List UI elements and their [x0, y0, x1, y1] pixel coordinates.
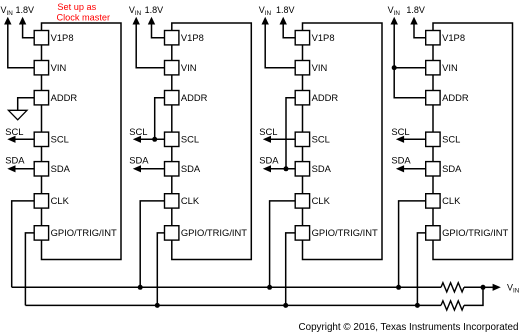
IC U1 body [42, 23, 122, 260]
power arrow 1.8V (U4) [410, 17, 417, 25]
pin U2 ADDR [165, 91, 179, 105]
wire INT bus [25, 304, 441, 306]
svg-text:1.8V: 1.8V [276, 5, 295, 15]
wire VIN supply to pin VIN (U2) [136, 24, 164, 68]
wire R1 to VIN node [464, 286, 483, 288]
svg-text:GPIO/TRIG/INT: GPIO/TRIG/INT [181, 227, 247, 238]
svg-text:VIN: VIN [129, 5, 142, 17]
svg-text:VIN: VIN [51, 62, 67, 73]
wire 1.8V supply to pin V1P8 (U3) [283, 24, 295, 38]
pin U1 V1P8 [34, 31, 48, 45]
power arrow VIN (U1) [4, 17, 11, 25]
power arrow 1.8V (U1) [19, 17, 26, 25]
svg-text:ADDR: ADDR [181, 92, 208, 103]
svg-text:VIN: VIN [507, 283, 519, 295]
svg-text:SCL: SCL [5, 126, 23, 137]
svg-text:SDA: SDA [51, 163, 71, 174]
pin U3 GPIO/TRIG/INT [295, 226, 309, 240]
pin U2 CLK [165, 194, 179, 208]
resistor R1 (CLK bus pull-up) [441, 283, 464, 292]
wire SDA stub (U3) [267, 168, 295, 170]
junction ADDR/VIN (U4) [392, 65, 397, 70]
pin U3 CLK [295, 194, 309, 208]
svg-text:CLK: CLK [51, 195, 70, 206]
wire 1.8V supply to pin V1P8 (U4) [414, 24, 426, 38]
svg-text:SDA: SDA [129, 155, 149, 166]
wire SCL stub (U4) [400, 138, 426, 140]
svg-text:V1P8: V1P8 [312, 32, 335, 43]
pin U3 V1P8 [295, 31, 309, 45]
svg-text:1.8V: 1.8V [16, 5, 35, 15]
pin U4 CLK [426, 194, 440, 208]
pin U2 V1P8 [165, 31, 179, 45]
pin U2 GPIO/TRIG/INT [165, 226, 179, 240]
IC U3 body [303, 23, 383, 260]
pin U3 VIN [295, 61, 309, 75]
wire ADDR to SDA net (U3) [286, 98, 295, 169]
pin U3 ADDR [295, 91, 309, 105]
arrowhead SCL (U4) [396, 136, 404, 143]
resistor R2 (INT bus pull-up) [441, 301, 464, 310]
wire CLK to CLK bus (U3) [270, 201, 296, 287]
svg-text:GPIO/TRIG/INT: GPIO/TRIG/INT [51, 227, 117, 238]
arrowhead SDA (U3) [263, 165, 271, 172]
svg-text:V1P8: V1P8 [51, 32, 74, 43]
junction CLK bus / U3 [267, 285, 272, 290]
pin U1 ADDR [34, 91, 48, 105]
junction INT bus / U2 [155, 303, 160, 308]
svg-text:SDA: SDA [181, 163, 201, 174]
wire VIN supply to pin VIN (U1) [8, 24, 34, 68]
svg-text:SCL: SCL [391, 126, 409, 137]
svg-text:ADDR: ADDR [442, 92, 469, 103]
pin U1 GPIO/TRIG/INT [34, 226, 48, 240]
junction VIN node [481, 285, 486, 290]
svg-text:ADDR: ADDR [51, 92, 78, 103]
pin U2 SDA [165, 162, 179, 176]
pin U4 ADDR [426, 91, 440, 105]
junction INT bus / U3 [283, 303, 288, 308]
svg-text:SDA: SDA [442, 163, 462, 174]
power arrow VIN (U3) [262, 17, 269, 25]
svg-text:CLK: CLK [312, 195, 331, 206]
pin U1 CLK [34, 194, 48, 208]
wire SDA stub (U1) [11, 168, 34, 170]
wire VIN supply to pin VIN (U4) [394, 24, 426, 68]
pin U4 GPIO/TRIG/INT [426, 226, 440, 240]
wire VIN node to arrow [483, 286, 493, 288]
pin U4 V1P8 [426, 31, 440, 45]
svg-text:Copyright © 2016, Texas Instru: Copyright © 2016, Texas Instruments Inco… [299, 322, 519, 333]
wire CLK to CLK bus (U4) [399, 201, 426, 287]
svg-text:VIN: VIN [442, 62, 458, 73]
svg-text:SCL: SCL [181, 134, 199, 145]
IC U4 body [433, 23, 513, 260]
svg-text:SDA: SDA [391, 155, 411, 166]
wire SDA stub (U2) [137, 168, 165, 170]
svg-text:V1P8: V1P8 [181, 32, 204, 43]
arrowhead SDA (U1) [7, 165, 15, 172]
power arrow VIN (U4) [391, 17, 398, 25]
svg-text:GPIO/TRIG/INT: GPIO/TRIG/INT [442, 227, 508, 238]
svg-text:VIN: VIN [181, 62, 197, 73]
svg-text:VIN: VIN [259, 5, 272, 17]
pin U4 SCL [426, 132, 440, 146]
junction CLK bus / U4 [396, 285, 401, 290]
svg-text:VIN: VIN [388, 5, 401, 17]
arrowhead SDA (U4) [396, 165, 404, 172]
pin U3 SDA [295, 162, 309, 176]
wire R2 to VIN node [464, 287, 483, 305]
svg-text:SCL: SCL [259, 126, 277, 137]
arrowhead SCL (U3) [263, 136, 271, 143]
pin U2 SCL [165, 132, 179, 146]
pin U1 SDA [34, 162, 48, 176]
arrowhead SDA (U2) [133, 165, 141, 172]
junction ADDR/SDA (U3) [284, 166, 289, 171]
svg-text:CLK: CLK [181, 195, 200, 206]
svg-text:SDA: SDA [259, 155, 279, 166]
arrowhead SCL (U2) [133, 136, 141, 143]
svg-text:VIN: VIN [312, 62, 328, 73]
wire GPIO/TRIG/INT to INT bus (U4) [417, 233, 425, 306]
pin U3 SCL [295, 132, 309, 146]
pin U2 VIN [165, 61, 179, 75]
wire CLK to CLK bus (U1) [12, 201, 35, 287]
svg-text:SCL: SCL [51, 134, 69, 145]
svg-text:Set up as: Set up as [57, 2, 96, 12]
svg-text:VIN: VIN [1, 5, 14, 17]
svg-text:GPIO/TRIG/INT: GPIO/TRIG/INT [312, 227, 378, 238]
svg-text:SDA: SDA [312, 163, 332, 174]
wire ADDR to ground (U1) [18, 98, 35, 111]
wire SCL stub (U3) [267, 138, 295, 140]
svg-text:1.8V: 1.8V [406, 5, 425, 15]
svg-text:CLK: CLK [442, 195, 461, 206]
junction CLK bus / U2 [138, 285, 143, 290]
power arrow 1.8V (U2) [148, 17, 155, 25]
wire GPIO/TRIG/INT to INT bus (U3) [286, 233, 296, 306]
svg-text:SCL: SCL [312, 134, 330, 145]
ground (U1 ADDR) [8, 110, 27, 120]
wire SCL stub (U1) [11, 138, 34, 140]
junction ADDR/SCL (U2) [152, 137, 157, 142]
pin U1 VIN [34, 61, 48, 75]
svg-text:1.8V: 1.8V [145, 5, 164, 15]
power arrow 1.8V (U3) [280, 17, 287, 25]
wire VIN supply to pin VIN (U3) [265, 24, 295, 68]
wire ADDR to SCL net (U2) [155, 98, 165, 140]
svg-text:SDA: SDA [5, 155, 25, 166]
wire SCL stub (U2) [137, 138, 165, 140]
junction INT bus / U4 [415, 303, 420, 308]
arrowhead SCL (U1) [7, 136, 15, 143]
svg-text:SCL: SCL [129, 126, 147, 137]
power arrow VIN (U2) [133, 17, 140, 25]
wire GPIO/TRIG/INT to INT bus (U2) [157, 233, 164, 306]
svg-text:ADDR: ADDR [312, 92, 339, 103]
pin U4 SDA [426, 162, 440, 176]
pin U1 SCL [34, 132, 48, 146]
IC U2 body [172, 23, 252, 260]
wire CLK to CLK bus (U2) [140, 201, 164, 287]
wire SDA stub (U4) [400, 168, 426, 170]
svg-text:Clock master: Clock master [57, 12, 111, 22]
wire 1.8V supply to pin V1P8 (U2) [152, 24, 165, 38]
wire GPIO/TRIG/INT to INT bus (U1) [25, 233, 34, 306]
pin U4 VIN [426, 61, 440, 75]
svg-text:V1P8: V1P8 [442, 32, 465, 43]
arrowhead VIN (pull-up rail) [493, 284, 501, 291]
svg-text:SCL: SCL [442, 134, 460, 145]
wire ADDR to VIN net (U4) [394, 68, 426, 98]
wire CLK bus [12, 286, 441, 288]
wire 1.8V supply to pin V1P8 (U1) [23, 24, 35, 38]
